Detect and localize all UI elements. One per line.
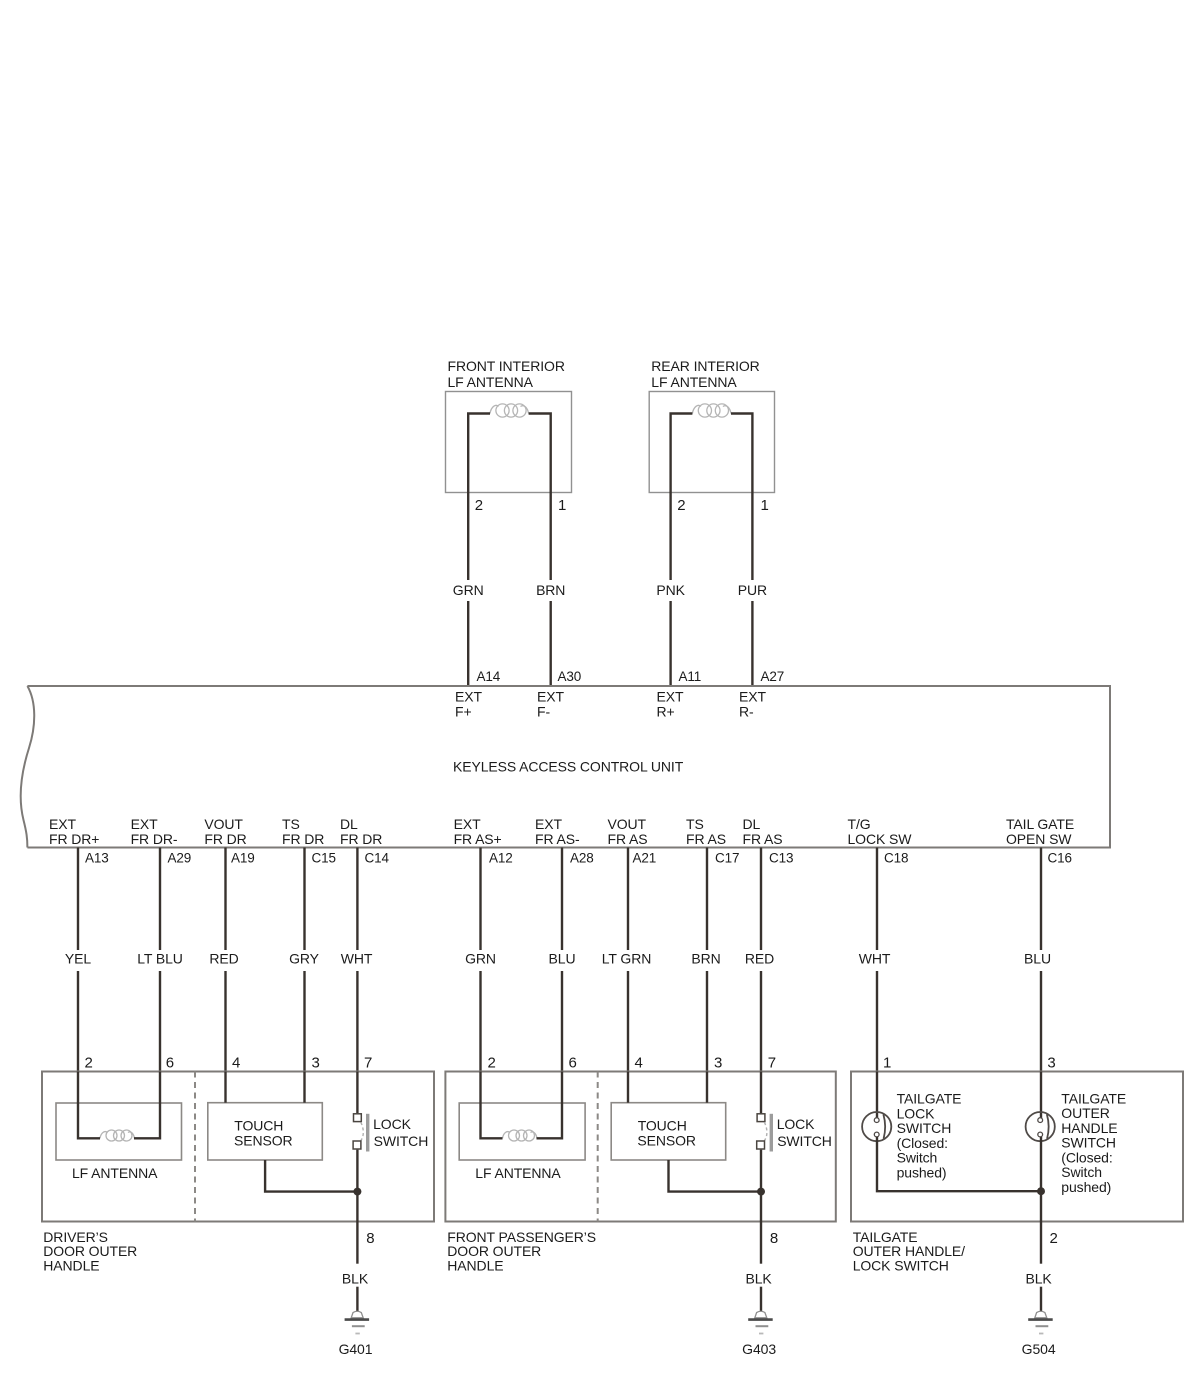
svg-text:LF ANTENNA: LF ANTENNA [651, 374, 737, 390]
wire: pin 3 to tailgate outer handle switch [1040, 1072, 1042, 1119]
net EXT FR AS- [535, 816, 580, 847]
tailgate lock switch SW3 [862, 1112, 891, 1141]
svg-text:FR DR: FR DR [282, 831, 324, 847]
svg-text:BRN: BRN [536, 582, 565, 598]
wire: rear antenna pin 2 below PNK label [669, 601, 671, 686]
net T/G LOCK SW [848, 816, 913, 847]
net DL FR AS [743, 816, 783, 847]
svg-text:BLK: BLK [1026, 1271, 1053, 1287]
svg-text:4: 4 [232, 1055, 240, 1072]
svg-text:BLU: BLU [1024, 951, 1051, 967]
svg-text:1: 1 [883, 1055, 891, 1072]
svg-text:LT GRN: LT GRN [602, 951, 651, 967]
svg-text:Switch: Switch [1061, 1164, 1102, 1180]
wire: passenger pin 4 to touch sensor [627, 1072, 629, 1103]
wire C14 to driver handle pin 7 (WHT) [356, 848, 358, 951]
svg-text:TAIL GATE: TAIL GATE [1006, 816, 1074, 832]
svg-text:FR AS: FR AS [608, 831, 648, 847]
svg-text:LF ANTENNA: LF ANTENNA [475, 1165, 561, 1181]
svg-text:3: 3 [1047, 1055, 1055, 1072]
svg-text:EXT: EXT [739, 689, 766, 705]
svg-text:SWITCH: SWITCH [897, 1120, 952, 1136]
svg-text:EXT: EXT [657, 689, 684, 705]
wire: driver pin 8 to ground (BLK) [356, 1222, 358, 1264]
svg-text:VOUT: VOUT [204, 816, 243, 832]
svg-text:OUTER: OUTER [1061, 1105, 1110, 1121]
wire C16 to tailgate handle switch pin 3 (BLU) [1040, 848, 1042, 951]
wire: passenger pin 7 to lock switch [760, 1072, 762, 1114]
net EXT FR DR+ [49, 816, 99, 847]
front interior LF antenna box [446, 392, 572, 493]
svg-text:HANDLE: HANDLE [1061, 1120, 1117, 1136]
svg-text:A13: A13 [85, 851, 109, 866]
svg-text:WHT: WHT [341, 951, 373, 967]
svg-text:REAR INTERIOR: REAR INTERIOR [651, 358, 759, 374]
wire: front antenna pin 1 loop to EXT F- [529, 414, 551, 581]
wire: driver pin 2 to antenna coil [78, 1072, 100, 1139]
passenger lock switch SW2 [757, 1114, 773, 1152]
svg-text:GRN: GRN [465, 951, 496, 967]
net EXT FR AS+ [454, 816, 502, 847]
wire A12 to passenger handle pin 2 (GRN) [479, 848, 481, 951]
driver LF antenna box [56, 1103, 182, 1160]
svg-text:A29: A29 [168, 851, 192, 866]
svg-text:HANDLE: HANDLE [43, 1257, 99, 1273]
svg-text:FR DR-: FR DR- [131, 831, 178, 847]
svg-text:A21: A21 [633, 851, 657, 866]
svg-text:EXT: EXT [454, 816, 481, 832]
svg-text:BLU: BLU [549, 951, 576, 967]
wire C18 to tailgate lock switch pin 1 (WHT) [876, 848, 878, 951]
svg-text:1: 1 [761, 497, 769, 514]
svg-text:A14: A14 [477, 669, 501, 684]
svg-text:SWITCH: SWITCH [1061, 1135, 1116, 1151]
driver touch sensor label [234, 1117, 293, 1148]
driver lock switch label [373, 1116, 428, 1149]
svg-text:YEL: YEL [65, 951, 91, 967]
svg-text:C16: C16 [1048, 851, 1072, 866]
svg-text:EXT: EXT [535, 816, 562, 832]
svg-text:G504: G504 [1022, 1341, 1056, 1357]
front passenger's door outer handle box [445, 1072, 835, 1222]
net TS FR DR [282, 816, 324, 847]
wire: driver pin 7 to lock switch [356, 1072, 358, 1114]
driver's door outer handle box [42, 1072, 434, 1222]
net EXT R+ [657, 689, 684, 720]
wire: passenger pin 2 to antenna coil [481, 1072, 503, 1139]
svg-text:G403: G403 [742, 1341, 776, 1357]
svg-text:EXT: EXT [455, 689, 482, 705]
svg-text:FR AS: FR AS [743, 831, 783, 847]
svg-text:TOUCH: TOUCH [638, 1117, 687, 1133]
tailgate lock switch label [897, 1091, 962, 1181]
net TS FR AS [686, 816, 726, 847]
wire A29 to driver handle pin 6 (LT BLU) [159, 848, 161, 951]
driver lock switch SW1 [353, 1114, 369, 1152]
wire A21 to passenger handle pin 4 (LT GRN) [627, 848, 629, 951]
svg-text:FR DR: FR DR [204, 831, 246, 847]
driver touch sensor box [208, 1103, 322, 1160]
svg-text:A27: A27 [761, 669, 785, 684]
wire: front antenna pin 2 below GRN label [467, 601, 469, 686]
wire C15 to driver handle pin 3 (GRY) [303, 848, 305, 951]
svg-text:LOCK: LOCK [373, 1116, 411, 1132]
svg-text:HANDLE: HANDLE [447, 1257, 503, 1273]
svg-text:SENSOR: SENSOR [234, 1133, 293, 1149]
svg-text:3: 3 [312, 1055, 320, 1072]
wire: driver pin 3 to touch sensor [303, 1072, 305, 1103]
driver handle box label [43, 1229, 137, 1274]
ground G401 [345, 1311, 370, 1333]
svg-text:TOUCH: TOUCH [234, 1117, 283, 1133]
svg-text:BLK: BLK [746, 1271, 773, 1287]
svg-text:pushed): pushed) [1061, 1179, 1111, 1195]
junction: passenger ground node [757, 1188, 765, 1196]
svg-text:DL: DL [743, 816, 761, 832]
svg-text:(Closed:: (Closed: [897, 1135, 948, 1151]
svg-text:R+: R+ [657, 704, 675, 720]
svg-text:KEYLESS ACCESS CONTROL UNIT: KEYLESS ACCESS CONTROL UNIT [453, 759, 684, 775]
svg-text:T/G: T/G [848, 816, 871, 832]
wire: rear antenna pin 1 below PUR label [751, 601, 753, 686]
tailgate box label [853, 1229, 965, 1274]
svg-text:FR AS-: FR AS- [535, 831, 580, 847]
passenger touch sensor label [637, 1117, 696, 1148]
svg-text:FR AS+: FR AS+ [454, 831, 502, 847]
svg-text:DL: DL [340, 816, 358, 832]
svg-text:LOCK SWITCH: LOCK SWITCH [853, 1257, 949, 1273]
svg-text:A30: A30 [558, 669, 582, 684]
svg-text:C17: C17 [715, 851, 739, 866]
rear interior LF antenna label [651, 358, 759, 390]
svg-text:OPEN SW: OPEN SW [1006, 831, 1072, 847]
svg-text:BLK: BLK [342, 1271, 369, 1287]
wire: front antenna pin 2 loop to EXT F+ [468, 414, 490, 581]
svg-text:8: 8 [366, 1230, 374, 1247]
svg-text:2: 2 [475, 497, 483, 514]
svg-text:A11: A11 [679, 669, 702, 684]
passenger LF antenna coil [503, 1130, 538, 1141]
svg-text:LOCK: LOCK [897, 1105, 935, 1121]
wire: driver pin 4 to touch sensor [224, 1072, 226, 1103]
wire: pin 1 to tailgate lock switch [876, 1072, 878, 1119]
front interior LF antenna label [448, 358, 565, 390]
svg-text:6: 6 [569, 1055, 577, 1072]
svg-text:pushed): pushed) [897, 1165, 947, 1181]
svg-text:2: 2 [677, 497, 685, 514]
svg-text:GRY: GRY [289, 951, 320, 967]
driver handle internal divider (dashed) [194, 1072, 196, 1222]
tailgate outer handle switch SW4 [1026, 1112, 1055, 1141]
svg-text:EXT: EXT [537, 689, 564, 705]
rear antenna coil L2 [692, 404, 731, 417]
wire C13 to passenger handle pin 7 (RED) [760, 848, 762, 951]
wire: lock switch to driver ground node and pin 8 [356, 1150, 358, 1222]
wire A19 to driver handle pin 4 (RED) [224, 848, 226, 951]
svg-text:R-: R- [739, 704, 754, 720]
wire: tailgate lock switch to ground node [877, 1137, 1041, 1191]
tailgate outer handle switch label [1061, 1090, 1126, 1195]
svg-text:EXT: EXT [49, 816, 76, 832]
wire: passenger pin 3 to touch sensor [706, 1072, 708, 1103]
svg-text:G401: G401 [339, 1341, 373, 1357]
svg-text:A19: A19 [231, 851, 255, 866]
wire: passenger touch sensor ground lead [669, 1160, 762, 1192]
svg-text:GRN: GRN [453, 582, 484, 598]
passenger LF antenna box [459, 1103, 585, 1160]
svg-text:SWITCH: SWITCH [777, 1133, 832, 1149]
junction: driver ground node [353, 1188, 361, 1196]
wire C17 to passenger handle pin 3 (BRN) [706, 848, 708, 951]
svg-text:FR AS: FR AS [686, 831, 726, 847]
svg-text:LOCK: LOCK [777, 1116, 815, 1132]
svg-text:BRN: BRN [691, 951, 720, 967]
tailgate outer handle / lock switch box [851, 1072, 1183, 1222]
svg-text:8: 8 [770, 1230, 778, 1247]
driver LF antenna coil [100, 1130, 135, 1141]
svg-text:3: 3 [714, 1055, 722, 1072]
net VOUT FR DR [204, 816, 246, 847]
svg-text:2: 2 [85, 1055, 93, 1072]
svg-text:WHT: WHT [859, 951, 891, 967]
wire: antenna coil to driver pin 6 [134, 1072, 160, 1139]
svg-text:Switch: Switch [897, 1150, 938, 1166]
wire: tailgate handle switch through ground node to pin 2 [1040, 1137, 1042, 1222]
svg-text:PNK: PNK [656, 582, 685, 598]
net EXT F- [537, 689, 564, 720]
svg-text:TAILGATE: TAILGATE [1061, 1090, 1126, 1106]
svg-text:F-: F- [537, 704, 550, 720]
svg-text:PUR: PUR [738, 582, 767, 598]
net TAIL GATE OPEN SW [1006, 816, 1074, 847]
wire: rear antenna pin 2 to EXT R+ [671, 414, 693, 581]
wire A28 to passenger handle pin 6 (BLU) [561, 848, 563, 951]
wire: antenna coil to passenger pin 6 [537, 1072, 563, 1139]
svg-text:2: 2 [488, 1055, 496, 1072]
svg-text:1: 1 [558, 497, 566, 514]
svg-text:LOCK SW: LOCK SW [848, 831, 913, 847]
svg-text:C15: C15 [312, 851, 336, 866]
rear interior LF antenna box [649, 392, 774, 493]
svg-text:C18: C18 [884, 851, 908, 866]
ground G403 [748, 1311, 773, 1333]
wire: rear antenna pin 1 to EXT R- [731, 414, 752, 581]
svg-text:7: 7 [364, 1055, 372, 1072]
svg-text:TS: TS [282, 816, 300, 832]
svg-text:C13: C13 [769, 851, 793, 866]
svg-text:RED: RED [209, 951, 238, 967]
svg-text:RED: RED [745, 951, 774, 967]
svg-text:FR DR+: FR DR+ [49, 831, 99, 847]
svg-text:2: 2 [1050, 1230, 1058, 1247]
wire: tailgate pin 2 to ground (BLK) [1040, 1222, 1042, 1264]
svg-text:VOUT: VOUT [608, 816, 647, 832]
net DL FR DR [340, 816, 382, 847]
svg-text:C14: C14 [365, 851, 390, 866]
svg-text:LF ANTENNA: LF ANTENNA [72, 1165, 158, 1181]
svg-text:F+: F+ [455, 704, 472, 720]
svg-text:4: 4 [635, 1055, 643, 1072]
svg-text:7: 7 [768, 1055, 776, 1072]
passenger handle internal divider (dashed) [597, 1072, 599, 1222]
passenger touch sensor box [611, 1103, 726, 1160]
svg-text:TAILGATE: TAILGATE [897, 1091, 962, 1107]
wire: passenger pin 8 to ground (BLK) [760, 1222, 762, 1264]
svg-text:LF ANTENNA: LF ANTENNA [448, 374, 534, 390]
svg-text:6: 6 [166, 1055, 174, 1072]
net EXT R- [739, 689, 766, 720]
net EXT FR DR- [131, 816, 178, 847]
wire A13 to driver handle pin 2 (YEL) [77, 848, 79, 951]
net VOUT FR AS [608, 816, 648, 847]
svg-text:EXT: EXT [131, 816, 158, 832]
wire: lock switch to passenger ground node and pin 8 [760, 1150, 762, 1222]
svg-text:TS: TS [686, 816, 704, 832]
junction: tailgate ground node [1037, 1187, 1045, 1195]
svg-text:(Closed:: (Closed: [1061, 1149, 1112, 1165]
wire: driver touch sensor ground lead [265, 1160, 357, 1192]
svg-text:SWITCH: SWITCH [374, 1133, 429, 1149]
svg-text:LT BLU: LT BLU [137, 951, 183, 967]
front antenna coil L1 [490, 404, 529, 417]
svg-text:FR DR: FR DR [340, 831, 382, 847]
wire: front antenna pin 1 below BRN label [550, 601, 552, 686]
passenger lock switch label [777, 1116, 832, 1149]
passenger handle box label [447, 1229, 596, 1274]
ground G504 [1028, 1311, 1053, 1333]
svg-text:A12: A12 [489, 851, 513, 866]
svg-text:FRONT INTERIOR: FRONT INTERIOR [448, 358, 565, 374]
svg-text:A28: A28 [570, 851, 594, 866]
keyless access control unit U1 box [21, 686, 1110, 848]
svg-text:SENSOR: SENSOR [637, 1133, 696, 1149]
net EXT F+ [455, 689, 482, 720]
